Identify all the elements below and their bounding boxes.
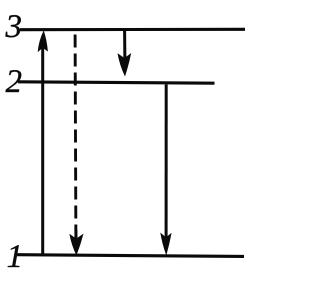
arrow level 2 to level 1 shaft [165, 85, 168, 240]
dashed arrow shaft stub into head [74, 230, 77, 244]
arrow level 3 to level 2 head (downward) [118, 53, 132, 77]
pump arrow head (upward) [38, 30, 48, 52]
level 2 line [18, 82, 215, 83]
level 1 line [17, 255, 244, 257]
label 3 [5, 15, 20, 37]
dashed arrow head (downward) [69, 234, 83, 256]
label 1 [8, 245, 20, 267]
level 3 line [20, 28, 245, 32]
pump arrow shaft (level 1 to level 3, upward) [41, 47, 44, 256]
arrow level 3 to level 2 shaft [123, 31, 126, 62]
arrow level 2 to level 1 head (downward) [160, 233, 171, 256]
dashed arrow shaft (level 3 to level 1, spontaneous, dashed) [74, 35, 78, 243]
label 2 [6, 70, 22, 92]
